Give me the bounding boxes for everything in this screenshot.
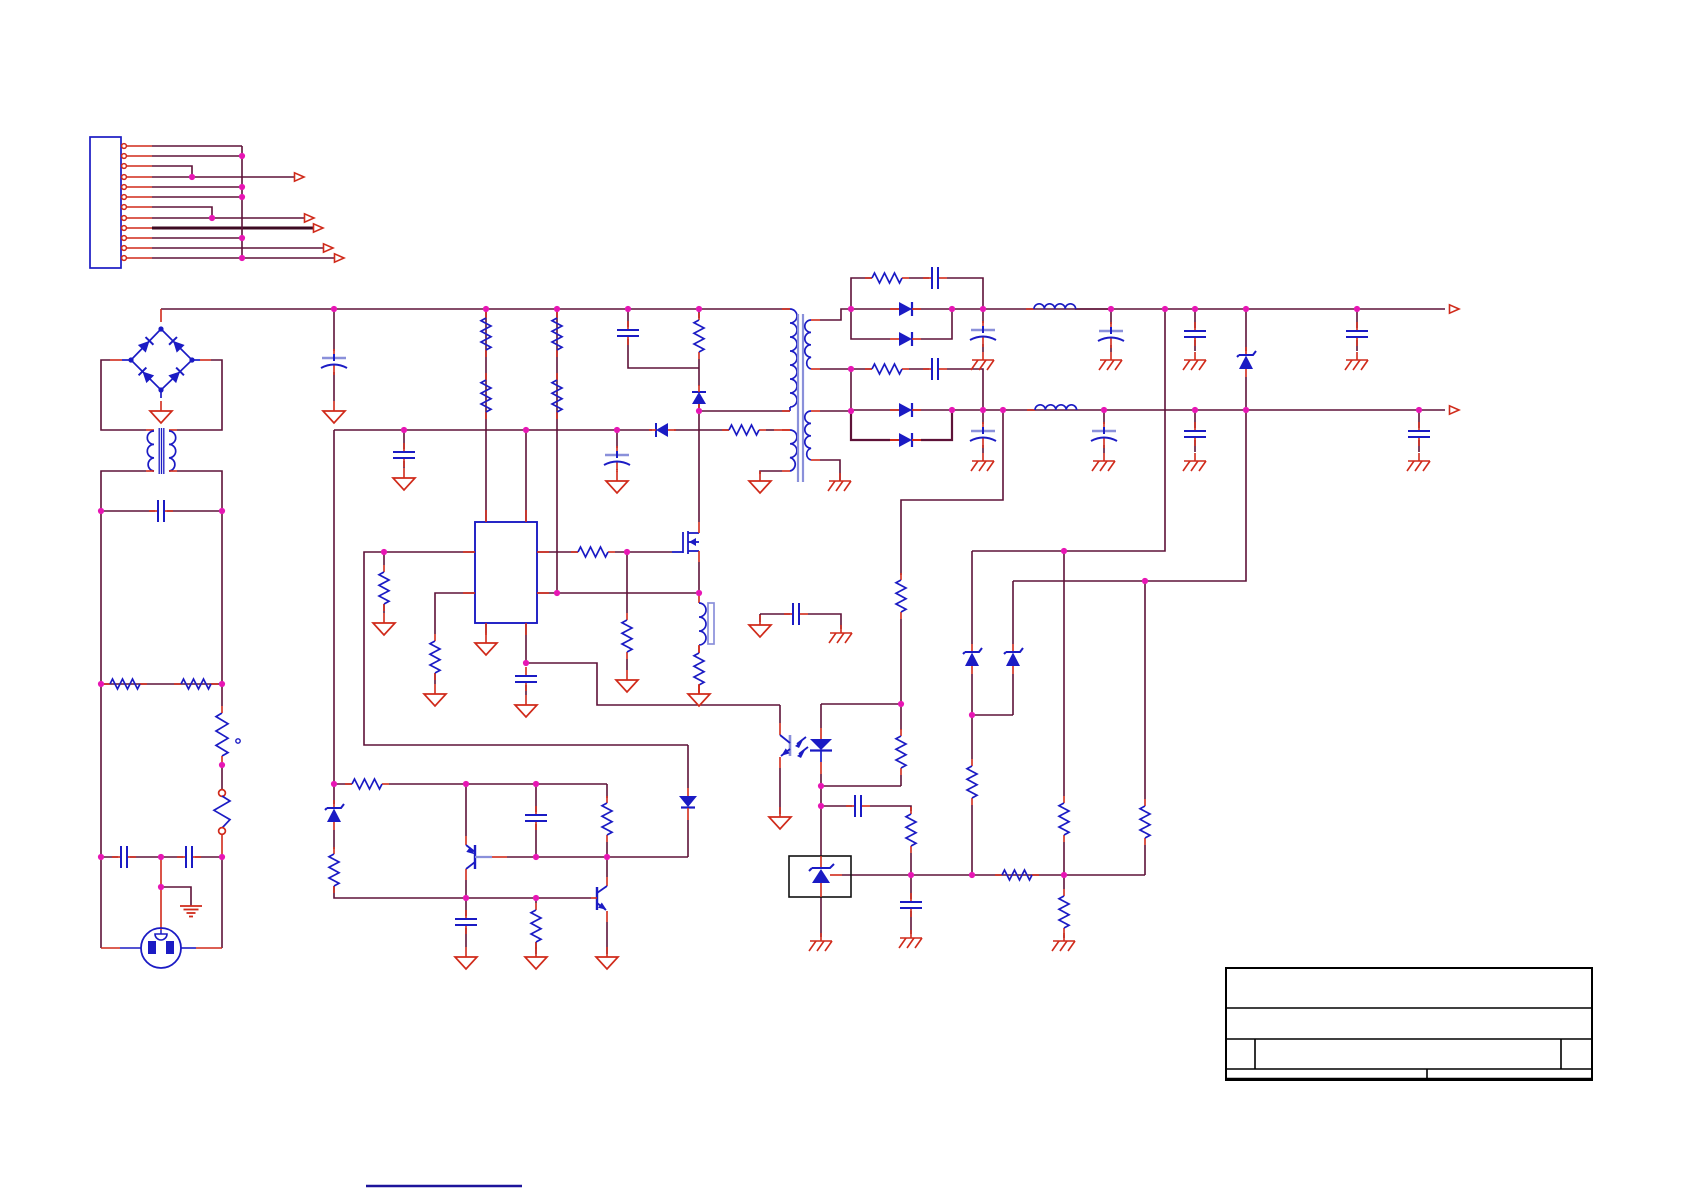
connector pin 3	[122, 164, 127, 169]
opto light arrows	[797, 737, 808, 754]
arrow pin11	[324, 244, 334, 252]
capacitor C14	[1184, 322, 1206, 346]
ground below C1	[323, 401, 345, 423]
resistor R15 divider rail2	[1140, 799, 1150, 845]
resistor R5 FB	[379, 565, 389, 611]
aux diode D2 (points left)	[649, 423, 676, 437]
capacitor C18 ref	[900, 893, 922, 917]
capacitor C10	[970, 321, 996, 347]
resistor R19	[531, 903, 541, 949]
wire down to AC plug	[160, 887, 162, 930]
capacitor C17	[1408, 422, 1430, 446]
connector pin 10	[122, 236, 127, 241]
chassis ground TL431	[809, 933, 832, 951]
connector pin 6	[122, 195, 127, 200]
ground Y bridge left	[749, 615, 771, 637]
capacitor CY1	[112, 846, 136, 868]
bulk capacitor C1	[321, 349, 347, 375]
capacitor C12	[1098, 322, 1124, 348]
rectifier diode D3	[890, 302, 921, 316]
clamp capacitor C2	[617, 321, 639, 345]
ground below bridge	[150, 401, 172, 423]
thermistor RT1	[216, 713, 228, 756]
resistor R6 gate pulldown	[622, 613, 632, 659]
chassis ground C13	[1092, 453, 1115, 471]
underline mark bottom left	[366, 1185, 522, 1187]
arrow pin12	[335, 254, 345, 262]
ground below C4	[393, 468, 415, 490]
chassis ground C15	[1183, 453, 1206, 471]
chassis ground ref cap	[899, 930, 922, 948]
resistor R1 discharge	[103, 679, 147, 689]
rectifier diode D6 parallel branch	[890, 433, 921, 447]
ground Q3 emitter	[596, 947, 618, 969]
resistor R9 opto LED	[896, 729, 906, 775]
ground aux winding	[749, 471, 771, 493]
chassis ground Y bridge right	[829, 625, 852, 643]
T1 core	[797, 314, 799, 482]
resistor R10 comp	[906, 807, 916, 853]
PWM controller U1	[475, 522, 537, 623]
choke bottom leads	[146, 470, 154, 472]
resistor R startup B1	[552, 311, 562, 357]
capacitor C16	[1346, 322, 1368, 346]
Q2 base lead	[475, 856, 492, 858]
choke core	[158, 428, 160, 474]
T2 core bar	[708, 603, 714, 644]
connector pin 8	[122, 216, 127, 221]
earth ground	[180, 906, 202, 917]
opto coupler U2 phototransistor	[779, 705, 781, 723]
MOSFET drain wire	[698, 522, 700, 533]
ground cap nodeA	[455, 947, 477, 969]
bridge diode lower-left	[139, 368, 155, 384]
rectifier diode D5	[890, 403, 921, 417]
resistor R startup A2	[481, 373, 491, 419]
chassis ground C14	[1183, 352, 1206, 370]
connector pin 1	[122, 144, 127, 149]
T2 sense resistor	[698, 645, 700, 653]
fuse F1	[219, 790, 226, 797]
ground FB resistor	[373, 613, 395, 635]
arrow output rail1	[1450, 305, 1460, 313]
ground below C5	[606, 471, 628, 493]
aux resistor R4	[722, 425, 766, 435]
cap comp	[846, 795, 870, 817]
resistor R17 below D10	[329, 847, 339, 893]
rectifier diode D4 parallel branch	[890, 332, 921, 346]
capacitor C15	[1184, 422, 1206, 446]
cap on IC pinB	[515, 667, 537, 691]
chassis ground divider	[1052, 933, 1075, 951]
inductor L1 rail1	[1026, 308, 1034, 310]
connector CN1	[90, 137, 121, 268]
capacitor C19	[525, 806, 547, 830]
zener D7	[1237, 347, 1256, 377]
diode D11 on feedback loop	[687, 788, 689, 796]
wire bridge AC left	[122, 359, 131, 361]
chassis ground C17	[1407, 453, 1430, 471]
capacitor C20	[455, 910, 477, 934]
ground resistor nodeB	[525, 947, 547, 969]
bridge diode upper-right	[169, 337, 185, 353]
MOSFET source wire	[698, 551, 700, 562]
transformer T1 secondary 1 winding	[805, 320, 811, 369]
ground pinB cap	[515, 695, 537, 717]
resistor R16 protection	[345, 779, 389, 789]
IC pin red stubs	[485, 510, 487, 522]
resistor R2 discharge	[174, 679, 218, 689]
resistor R11 ref	[995, 870, 1039, 880]
current sense transformer T2 winding	[698, 593, 700, 603]
bridge diode upper-left	[138, 337, 154, 353]
connector pin 9	[122, 226, 127, 231]
connector pin 2	[122, 154, 127, 159]
gate resistor	[571, 547, 615, 557]
resistor R14 divider lower	[1059, 889, 1069, 935]
zener D9	[1004, 644, 1023, 674]
small circle marker near thermistor	[236, 739, 240, 743]
connector pin 12	[122, 256, 127, 261]
chassis ground C12	[1099, 352, 1122, 370]
wire Y-cap midpoint down	[160, 857, 162, 887]
transistor Q2 (PNP)	[465, 836, 467, 845]
MOSFET Q1	[683, 531, 699, 554]
bridge rectifier BD1	[131, 329, 192, 390]
snubber1 cap	[923, 267, 947, 289]
zener D10	[325, 800, 344, 830]
connector pin 7	[122, 205, 127, 210]
wire bridge minus to ground	[160, 390, 162, 398]
snubber2 resistor	[865, 364, 909, 374]
transformer T1 aux winding	[782, 429, 790, 431]
ground IC pinA	[475, 633, 497, 655]
resistor R startup A1	[481, 311, 491, 357]
clamp diode D1 (up)	[692, 385, 706, 412]
ground sense resistor	[688, 684, 710, 706]
arrow pin8	[305, 214, 315, 222]
clamp resistor R3	[694, 313, 704, 359]
chassis ground C16	[1345, 352, 1368, 370]
arrow pin9	[314, 224, 324, 232]
Y cap bridge	[784, 603, 808, 625]
resistor R8 opto supply	[896, 573, 906, 619]
wire rail down to bridge top	[160, 309, 162, 322]
transistor Q3 (NPN)	[606, 877, 608, 886]
resistor R12 zener chain	[967, 759, 977, 805]
capacitor C13	[1091, 422, 1117, 448]
capacitor C5 vcc	[604, 446, 630, 472]
plug neutral lead	[181, 947, 196, 949]
snubber2 cap	[923, 358, 947, 380]
ground gate resistor	[616, 670, 638, 692]
chassis ground C10	[971, 352, 994, 370]
arrow pin4	[295, 173, 305, 181]
Q3 base lead	[591, 897, 597, 899]
chassis ground C11	[971, 453, 994, 471]
opto coupler U2 LED	[820, 704, 822, 728]
wire bridge AC right	[192, 359, 200, 361]
arrow output rail2	[1450, 406, 1460, 414]
resistor R13 divider upper	[1059, 796, 1069, 842]
TL431 U3	[789, 856, 851, 897]
inductor L2 rail2	[1027, 409, 1035, 411]
ground pin2 resistor	[424, 684, 446, 706]
capacitor C4	[393, 443, 415, 467]
title block	[1226, 968, 1592, 1080]
connector pin 11	[122, 246, 127, 251]
capacitor CX1	[149, 500, 173, 522]
capacitor C11	[970, 422, 996, 448]
chassis ground sec2	[828, 473, 851, 491]
capacitor CY2	[177, 846, 201, 868]
resistor R18	[602, 796, 612, 842]
zener D8	[963, 644, 982, 674]
connector pin 5	[122, 185, 127, 190]
bridge diode lower-right	[168, 368, 184, 384]
transformer T1 primary winding	[782, 308, 790, 310]
transformer T1 secondary 2 winding	[805, 411, 811, 460]
resistor R7 sense	[694, 646, 704, 692]
common mode choke L0 right winding	[169, 429, 177, 431]
ground opto emitter	[769, 807, 791, 829]
snubber1 resistor	[865, 273, 909, 283]
resistor R startup B2	[552, 373, 562, 419]
AC plug J1	[141, 928, 181, 968]
common mode choke L0 left winding	[146, 429, 154, 431]
plug line lead	[120, 947, 141, 949]
connector pin 4	[122, 175, 127, 180]
resistor on pin2	[430, 634, 440, 680]
